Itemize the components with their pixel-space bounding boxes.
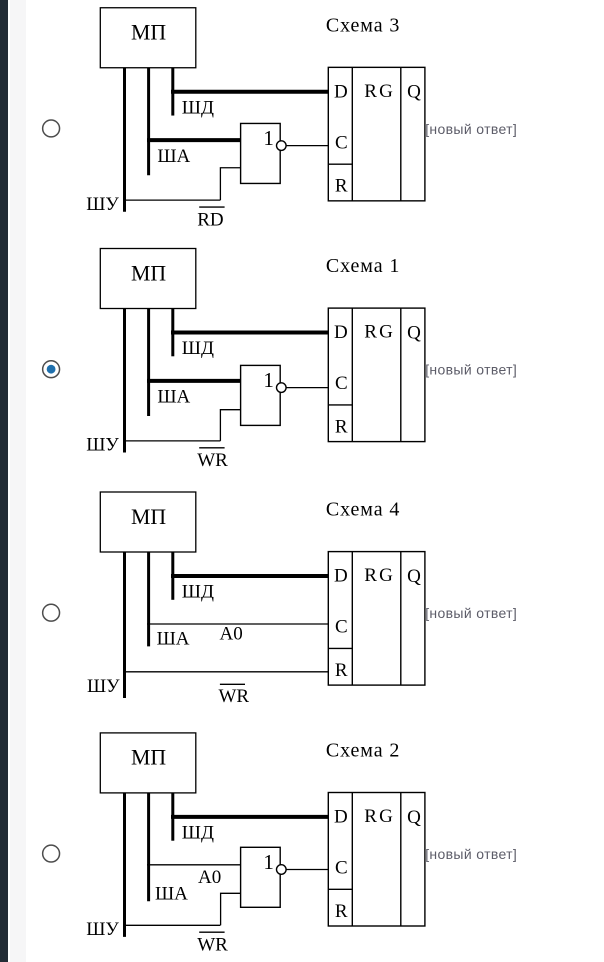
svg-text:A0: A0: [220, 624, 243, 645]
svg-text:Q: Q: [407, 322, 421, 343]
svg-text:Схема 3: Схема 3: [326, 14, 400, 36]
svg-text:[новый ответ]: [новый ответ]: [425, 605, 517, 621]
svg-text:RG: RG: [364, 81, 395, 102]
svg-text:[новый ответ]: [новый ответ]: [425, 362, 517, 378]
svg-text:ША: ША: [157, 387, 190, 408]
svg-text:C: C: [335, 858, 348, 879]
svg-text:ШД: ШД: [182, 338, 214, 359]
svg-text:D: D: [334, 322, 348, 343]
svg-text:R: R: [335, 416, 348, 437]
svg-text:МП: МП: [131, 746, 166, 770]
svg-text:R: R: [335, 176, 348, 197]
svg-text:D: D: [334, 807, 348, 828]
svg-text:D: D: [334, 566, 348, 587]
svg-text:Q: Q: [407, 566, 421, 587]
svg-text:[новый ответ]: [новый ответ]: [425, 846, 517, 862]
svg-text:Q: Q: [407, 807, 421, 828]
svg-text:Схема 4: Схема 4: [326, 499, 400, 521]
svg-text:ША: ША: [157, 146, 190, 167]
svg-text:D: D: [334, 81, 348, 102]
svg-text:ШУ: ШУ: [87, 676, 120, 697]
svg-text:RG: RG: [364, 322, 395, 343]
svg-text:МП: МП: [131, 261, 166, 285]
svg-text:МП: МП: [131, 21, 166, 45]
svg-text:МП: МП: [131, 505, 166, 529]
svg-text:WR: WR: [197, 450, 228, 471]
svg-text:R: R: [335, 901, 348, 922]
svg-text:ШД: ШД: [182, 97, 214, 118]
svg-text:ШД: ШД: [182, 582, 214, 603]
svg-text:ШУ: ШУ: [86, 435, 119, 456]
svg-text:1: 1: [263, 850, 274, 874]
svg-text:ША: ША: [157, 629, 190, 650]
svg-text:RD: RD: [197, 209, 223, 230]
svg-text:ШУ: ШУ: [86, 919, 119, 940]
svg-text:Q: Q: [407, 82, 421, 103]
svg-text:ША: ША: [155, 884, 188, 905]
svg-text:ШУ: ШУ: [86, 194, 119, 215]
svg-text:C: C: [335, 617, 348, 638]
svg-text:1: 1: [263, 368, 274, 392]
svg-text:Схема 1: Схема 1: [326, 255, 400, 277]
svg-text:ШД: ШД: [182, 823, 214, 844]
svg-text:WR: WR: [219, 686, 250, 707]
svg-text:1: 1: [263, 126, 274, 150]
svg-text:RG: RG: [364, 806, 395, 827]
svg-text:WR: WR: [197, 934, 228, 955]
svg-text:Схема 2: Схема 2: [326, 739, 400, 761]
svg-text:[новый ответ]: [новый ответ]: [425, 121, 517, 137]
svg-text:C: C: [335, 373, 348, 394]
svg-text:C: C: [335, 132, 348, 153]
svg-text:A0: A0: [198, 867, 221, 888]
svg-text:RG: RG: [364, 565, 395, 586]
svg-text:R: R: [335, 660, 348, 681]
